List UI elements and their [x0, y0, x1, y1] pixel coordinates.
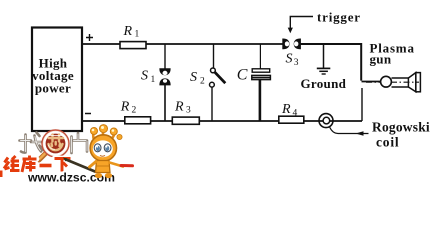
- svg-text:power: power: [35, 81, 71, 96]
- svg-text:C: C: [237, 67, 248, 84]
- svg-text:2: 2: [132, 106, 137, 116]
- svg-text:3: 3: [186, 106, 191, 116]
- svg-text:1: 1: [151, 75, 156, 85]
- svg-text:R: R: [174, 100, 184, 115]
- svg-text:trigger: trigger: [317, 10, 361, 25]
- svg-text:coil: coil: [376, 135, 399, 150]
- svg-text:R: R: [120, 100, 130, 115]
- svg-text:S: S: [190, 70, 197, 85]
- svg-text:1: 1: [135, 30, 140, 40]
- svg-text:R: R: [123, 24, 133, 39]
- svg-text:S: S: [286, 52, 293, 67]
- svg-text:gun: gun: [370, 52, 392, 67]
- svg-text:2: 2: [200, 77, 205, 87]
- svg-text:4: 4: [293, 109, 298, 119]
- svg-text:R: R: [281, 102, 291, 117]
- svg-text:S: S: [141, 69, 148, 84]
- svg-text:Ground: Ground: [301, 76, 347, 91]
- svg-text:3: 3: [294, 58, 299, 68]
- svg-text:Rogowski: Rogowski: [372, 120, 430, 135]
